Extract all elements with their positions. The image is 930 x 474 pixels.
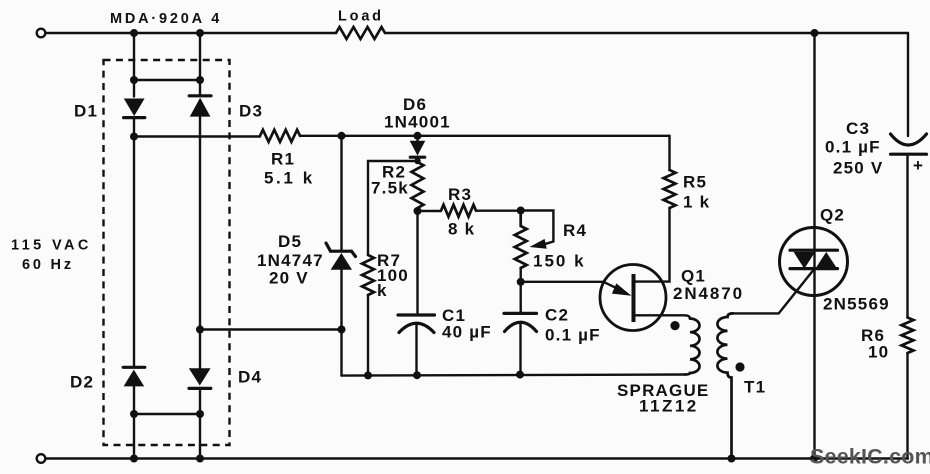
wire bridge AC crossbar lower — [134, 413, 200, 415]
svg-text:Q2: Q2 — [820, 206, 845, 225]
junction R2/R3/C1 node — [414, 207, 422, 215]
svg-text:C3: C3 — [846, 119, 870, 138]
svg-text:20 V: 20 V — [269, 269, 309, 288]
terminal top-left — [37, 29, 46, 38]
wire R4 wiper arm — [521, 211, 554, 245]
wire bridge negative output — [200, 328, 342, 330]
svg-text:1 k: 1 k — [683, 193, 710, 212]
svg-text:D2: D2 — [70, 373, 94, 392]
junction R4 bottom / C2 / Q1 emitter — [517, 278, 525, 286]
svg-text:8 k: 8 k — [448, 220, 475, 239]
wire D5 column lower — [340, 270, 342, 376]
svg-text:11Z12: 11Z12 — [639, 397, 699, 416]
resistor R6 — [902, 318, 914, 354]
svg-text:1N4747: 1N4747 — [257, 251, 324, 270]
wire R6 to bottom rail — [906, 353, 908, 459]
wire D4 cathode to bottom rail — [199, 388, 201, 458]
junction bridge + output node — [130, 133, 138, 141]
junction bottom rail / D4 column — [196, 455, 204, 463]
wire right column top — [907, 33, 909, 136]
svg-text:T1: T1 — [744, 378, 766, 397]
junction lower crossbar / D4 — [196, 410, 204, 418]
junction top rail / D1-D2 column — [130, 29, 138, 37]
bridge module MDA920A4 dashed outline — [104, 60, 230, 445]
capacitor C2 — [504, 282, 537, 375]
wire D1 column from top rail — [133, 33, 135, 97]
T1 primary coil — [685, 319, 699, 375]
svg-text:250 V: 250 V — [833, 159, 883, 178]
wire oscillator common rail — [342, 375, 686, 376]
junction bus / D5 — [338, 132, 346, 140]
junction bottom rail / Q2 MT1 — [810, 455, 818, 463]
wire T1 secondary to Q2 gate — [731, 269, 814, 313]
junction rail / C1 — [413, 371, 421, 379]
svg-text:D5: D5 — [278, 232, 302, 251]
wire D5 column upper — [340, 136, 342, 250]
Q2 triac top bar — [790, 249, 838, 252]
svg-text:D3: D3 — [239, 102, 263, 121]
junction bus / D6 — [414, 132, 422, 140]
diode D2 — [123, 367, 145, 386]
Q2 triac bottom bar — [790, 267, 838, 270]
junction bottom rail / T1 secondary — [728, 455, 736, 463]
junction rail / C2 — [516, 371, 524, 379]
svg-text:R4: R4 — [563, 221, 587, 240]
svg-text:5.1 k: 5.1 k — [264, 169, 315, 188]
svg-text:C2: C2 — [545, 306, 569, 325]
wire R7 to common rail — [367, 295, 369, 376]
resistor R1 — [260, 130, 300, 142]
wire main positive bus — [300, 135, 670, 137]
wire bottom rail — [46, 457, 908, 459]
capacitor C1 — [398, 315, 435, 375]
Q1 emitter arrowhead — [612, 283, 632, 295]
svg-text:0.1 µF: 0.1 µF — [825, 138, 881, 157]
svg-text:Load: Load — [338, 9, 384, 25]
resistor R2 — [412, 162, 424, 208]
wire Q2 main terminal column — [813, 33, 815, 459]
svg-text:MDA·920A 4: MDA·920A 4 — [110, 11, 222, 27]
Q1 base bar — [632, 274, 636, 322]
svg-text:1N4001: 1N4001 — [384, 113, 451, 132]
wire bus corner down to R5 — [668, 136, 670, 170]
wire Q1 base1 to T1 primary — [636, 315, 691, 318]
wire bridge output to R1 — [134, 135, 260, 137]
wire D1 cathode to D2 cathode column — [133, 118, 135, 367]
diode D4 — [189, 368, 211, 388]
svg-text:7.5k: 7.5k — [371, 179, 409, 198]
junction top rail / D3-D4 column — [196, 29, 204, 37]
junction rail / R7 — [364, 371, 372, 379]
svg-text:Q1: Q1 — [681, 267, 706, 286]
wire D6 cathode to R7 branch — [368, 161, 418, 255]
junction D6 cathode node — [414, 158, 420, 164]
resistor R7 — [362, 255, 374, 295]
svg-text:D4: D4 — [238, 368, 262, 387]
wire R4 body bottom stub — [520, 268, 522, 282]
svg-text:150 k: 150 k — [533, 252, 586, 271]
junction crossbar / D1 — [130, 76, 138, 84]
wire top rail right segment — [385, 32, 908, 34]
zener diode D5 — [326, 243, 356, 270]
wire top rail left segment — [46, 32, 336, 34]
junction lower crossbar / D2 — [130, 410, 138, 418]
R4 wiper arrowhead — [530, 239, 547, 249]
svg-text:60 Hz: 60 Hz — [22, 257, 74, 273]
junction top rail / Q2 MT2 — [811, 29, 819, 37]
svg-text:115 VAC: 115 VAC — [11, 238, 92, 254]
svg-text:D1: D1 — [74, 102, 98, 121]
T1 primary phasing dot — [670, 321, 679, 330]
wire bridge AC crossbar upper — [134, 79, 200, 81]
wire D2 anode to bottom rail — [133, 386, 135, 458]
svg-text:R1: R1 — [271, 150, 295, 169]
junction crossbar / D3 — [196, 76, 204, 84]
triac Q2 circle — [780, 228, 848, 296]
wire R2 node to R3 — [418, 210, 442, 212]
junction D3-D4 / negative tap — [196, 326, 204, 334]
svg-text:k: k — [377, 281, 388, 300]
svg-text:SeekIC.com: SeekIC.com — [810, 445, 930, 469]
svg-text:0.1 µF: 0.1 µF — [545, 326, 601, 345]
svg-text:2N5569: 2N5569 — [823, 295, 890, 314]
diode D6 — [410, 136, 426, 162]
resistor R3 — [441, 205, 476, 217]
capacitor C3 — [891, 134, 927, 318]
T1 secondary coil — [717, 313, 733, 458]
svg-text:D6: D6 — [403, 95, 427, 114]
svg-text:10: 10 — [868, 343, 889, 362]
Q2 triac right triangle — [815, 252, 837, 269]
T1 secondary phasing dot — [735, 362, 744, 371]
svg-text:R3: R3 — [448, 185, 472, 204]
Q2 triac left triangle — [794, 252, 816, 269]
svg-text:2N4870: 2N4870 — [673, 284, 744, 303]
transistor Q1 circle — [600, 265, 666, 331]
wire R5 to Q1 base2 — [636, 208, 670, 282]
svg-text:+: + — [913, 156, 924, 175]
wire D3 anode column down — [199, 117, 201, 369]
wire R2 bottom stub — [416, 208, 418, 315]
resistor Load — [336, 27, 385, 39]
wire D3 column from top rail — [199, 33, 201, 95]
svg-text:R5: R5 — [683, 173, 707, 192]
junction R3/R4 node — [517, 207, 525, 215]
diode D1 — [124, 99, 145, 118]
junction D5 column / negative wire — [338, 326, 346, 334]
wire R3 to R4 node — [476, 209, 521, 211]
wire Q1 emitter from R4/C2 node — [521, 282, 622, 291]
diode D3 — [189, 96, 211, 117]
resistor R4 body — [515, 211, 527, 269]
svg-text:40 µF: 40 µF — [442, 323, 492, 342]
terminal bottom-left — [37, 454, 46, 463]
junction bottom rail / D2 column — [130, 455, 138, 463]
resistor R5 — [664, 170, 676, 208]
